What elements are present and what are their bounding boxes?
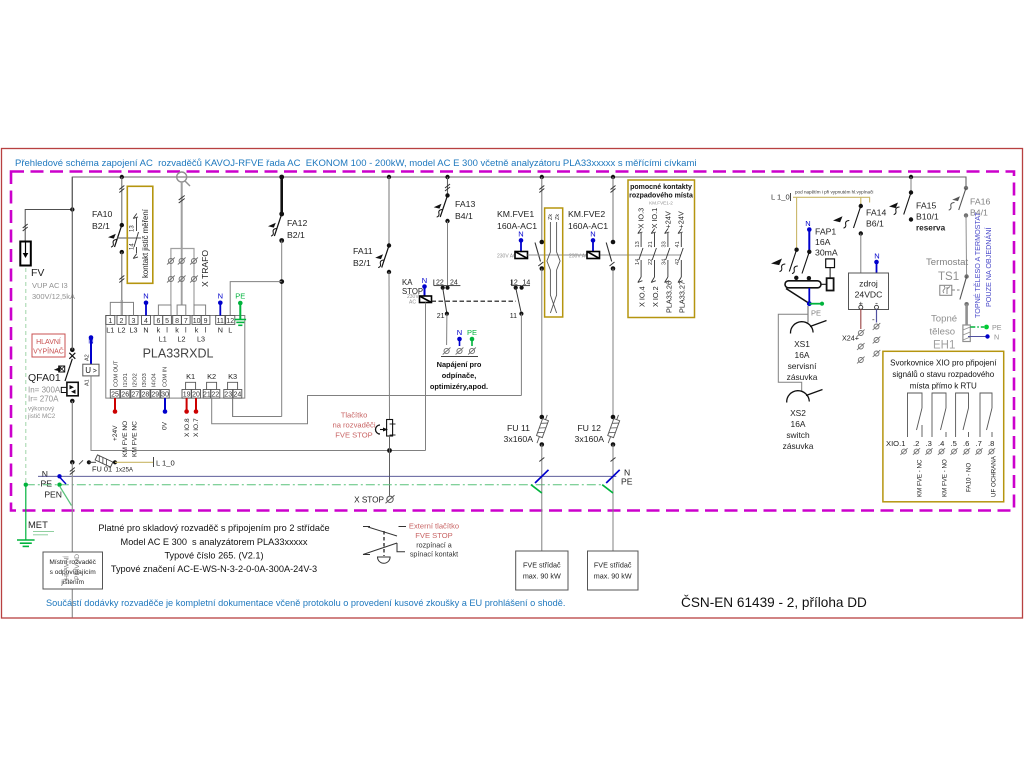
svg-text:11: 11 [510, 313, 517, 320]
wire FA11 down to stop button [388, 272, 391, 420]
undervoltage release U> [83, 335, 99, 386]
svg-text:VYPÍNAČ: VYPÍNAČ [33, 347, 64, 356]
svg-text:TS1: TS1 [938, 271, 959, 283]
terminal X STOP [354, 495, 394, 504]
heating element EH1 [930, 304, 1002, 351]
svg-text:k: k [175, 326, 179, 335]
svg-text:PLA33.26: PLA33.26 [664, 281, 673, 313]
svg-text:zásuvka: zásuvka [787, 372, 818, 382]
svg-text:14: 14 [130, 243, 136, 250]
svg-text:10: 10 [193, 318, 201, 325]
earth PE at terminal 12 [235, 301, 247, 326]
svg-text:.5: .5 [951, 439, 957, 448]
terminal numbers bottom row U1 [111, 392, 241, 399]
svg-text:Zk: Zk [555, 214, 561, 220]
earth MET [17, 485, 54, 547]
contactor KM.FVE1 [497, 177, 544, 271]
svg-text:PE: PE [992, 323, 1002, 332]
svg-text:FA10: FA10 [92, 209, 112, 219]
svg-text:B2/1: B2/1 [92, 221, 110, 231]
wire FV tap [23, 207, 75, 241]
svg-text:výkonový: výkonový [28, 406, 55, 413]
disconnect points X TRAFO [167, 258, 198, 283]
svg-text:XS1: XS1 [794, 339, 810, 349]
svg-text:max. 90 kW: max. 90 kW [594, 572, 632, 581]
svg-text:Typové značení AC-E-WS-N-3-2-0: Typové značení AC-E-WS-N-3-2-0-0A-300A-2… [111, 564, 317, 574]
svg-text:FA12: FA12 [287, 218, 307, 228]
wire to socket XS2 [778, 314, 808, 391]
svg-text:FA10 - NO: FA10 - NO [966, 463, 973, 492]
svg-text:PE: PE [41, 479, 53, 489]
svg-text:+24V: +24V [112, 425, 119, 441]
terminal names top row U1 [106, 326, 232, 344]
svg-text:X24+: X24+ [842, 334, 859, 343]
svg-text:1: 1 [108, 318, 112, 325]
label external stop button [409, 522, 459, 559]
svg-text:X TRAFO: X TRAFO [200, 250, 210, 287]
svg-text:na rozvaděči: na rozvaděči [332, 421, 375, 430]
fuse FU 01 [70, 455, 134, 474]
wire button to X STOP [389, 436, 391, 496]
svg-text:22: 22 [436, 280, 444, 287]
svg-text:+24V: +24V [663, 211, 672, 228]
wire contact 11 down [520, 314, 522, 396]
svg-text:21: 21 [437, 313, 445, 320]
svg-text:33: 33 [662, 241, 668, 247]
svg-text:N: N [422, 276, 427, 285]
svg-text:.4: .4 [938, 439, 944, 448]
svg-text:24: 24 [234, 392, 242, 399]
svg-text:L2: L2 [178, 335, 186, 344]
wire FU11 to inverter 1 [531, 445, 549, 552]
relay K1 bracket [186, 372, 196, 390]
svg-text:odpínače,: odpínače, [442, 371, 477, 380]
svg-text:COM OUT: COM OUT [113, 360, 119, 387]
svg-text:KA: KA [402, 278, 413, 287]
svg-text:N: N [218, 292, 223, 301]
measuring point symbol on bus [177, 172, 190, 186]
svg-text:28: 28 [142, 392, 150, 399]
svg-text:13: 13 [635, 241, 641, 247]
socket XS1 [787, 306, 827, 382]
svg-text:rozpadového místa: rozpadového místa [629, 193, 693, 200]
terminal points XIO [900, 448, 995, 455]
node FA12 to PLA L [279, 279, 284, 284]
wire 0V stub terminal 30 [162, 398, 169, 430]
svg-text:L3: L3 [197, 335, 205, 344]
inverter box 1 FVE stridac [516, 551, 568, 590]
socket XS2 [783, 390, 823, 452]
external stop button symbol [363, 527, 406, 564]
node bus-FA11 [387, 175, 391, 179]
circuit breaker FA15 [889, 177, 946, 233]
svg-text:KM FVE - NO: KM FVE - NO [942, 459, 949, 497]
svg-text:N: N [457, 328, 462, 337]
svg-text:XS2: XS2 [790, 408, 806, 418]
svg-text:PLA33.27: PLA33.27 [678, 281, 687, 313]
svg-text:30: 30 [161, 392, 169, 399]
svg-text:KM FVE NO: KM FVE NO [122, 421, 129, 457]
wire FU12 to inverter 2 [602, 445, 633, 552]
svg-text:N: N [590, 230, 595, 239]
aux contact column X IO.1 [648, 208, 660, 307]
main contacts box KM (gold) [545, 208, 563, 317]
wire X24- output [872, 309, 880, 357]
relay contact KA STOP 11/12/14 [510, 280, 531, 321]
aux contact FA10 - NO [956, 393, 973, 492]
aux contact column +24V / PLA33.26 [662, 211, 674, 313]
svg-text:Tlačítko: Tlačítko [341, 411, 368, 420]
mechanical link KM.FVE1 to aux contacts [528, 254, 682, 256]
svg-text:I1\O1: I1\O1 [123, 373, 129, 387]
spec text block [98, 523, 329, 574]
svg-text:KM.FVE2: KM.FVE2 [568, 209, 605, 219]
svg-text:L 1_0: L 1_0 [156, 459, 175, 468]
outgoing feed: napajeni pro odpinace [430, 328, 488, 391]
fuse FU 11 [504, 414, 551, 447]
svg-text:L 1_0: L 1_0 [771, 193, 790, 202]
svg-text:Přehledové schéma zapojení AC: Přehledové schéma zapojení AC rozvaděčů … [15, 158, 696, 169]
svg-text:signálů o stavu rozpadového: signálů o stavu rozpadového [892, 370, 994, 379]
svg-text:X IO.1: X IO.1 [650, 208, 659, 229]
main switch label box [32, 334, 65, 357]
svg-text:11: 11 [217, 318, 224, 325]
svg-text:PE: PE [811, 309, 821, 318]
svg-text:N: N [42, 469, 48, 479]
svg-text:In= 300A: In= 300A [28, 386, 61, 395]
svg-text:2: 2 [120, 318, 124, 325]
svg-text:L: L [228, 326, 232, 335]
svg-text:.2: .2 [913, 439, 919, 448]
svg-text:25: 25 [111, 392, 119, 399]
svg-text:.7: .7 [976, 439, 982, 448]
svg-text:1x25A: 1x25A [116, 467, 134, 474]
wire KM.FVE2 to FU12 [612, 269, 614, 418]
relay coil KA STOP [402, 276, 432, 306]
svg-text:FV: FV [31, 267, 44, 279]
svg-text:PLA33RXDL: PLA33RXDL [143, 347, 214, 361]
svg-text:>: > [93, 368, 97, 375]
svg-text:FU 12: FU 12 [577, 423, 601, 433]
wire bracket terminals 1-3 [110, 302, 133, 315]
svg-text:jistič MC2: jistič MC2 [27, 413, 56, 420]
conductor PE distribution [24, 479, 601, 489]
circuit breaker FA14 [833, 204, 886, 236]
svg-text:K2: K2 [207, 372, 216, 381]
thermostat TS1 [926, 257, 969, 306]
svg-text:Napájení pro: Napájení pro [437, 360, 482, 369]
svg-text:N: N [218, 326, 223, 335]
svg-text:B2/1: B2/1 [353, 258, 371, 268]
wire X24+ output [842, 309, 865, 363]
svg-text:12: 12 [226, 318, 234, 325]
svg-text:.3: .3 [926, 439, 932, 448]
svg-text:27: 27 [131, 392, 139, 399]
svg-text:FVE střídač: FVE střídač [523, 561, 561, 570]
wire main supply down [70, 462, 75, 617]
svg-text:X IO.2: X IO.2 [651, 286, 660, 307]
svg-text:X IO.4: X IO.4 [638, 286, 647, 307]
wire +24V stub terminal 25 [112, 398, 119, 441]
label HLAVNI PRIVOD vertical [62, 554, 82, 580]
wire bracket terminals 10-9 [194, 305, 206, 316]
svg-text:X IO.8: X IO.8 [184, 418, 191, 437]
node bus-FA12 [279, 175, 284, 180]
node PE of sockets [807, 301, 824, 317]
svg-text:I2\O2: I2\O2 [133, 373, 139, 387]
svg-text:X IO.7: X IO.7 [193, 418, 200, 437]
svg-text:rozpínací a: rozpínací a [416, 541, 452, 550]
svg-text:22: 22 [648, 259, 654, 265]
circuit breaker FA10 [92, 177, 141, 300]
svg-text:TOPNÉ TĚLESO A TERMOSTAT: TOPNÉ TĚLESO A TERMOSTAT [973, 211, 982, 318]
svg-text:pomocné kontakty: pomocné kontakty [630, 184, 692, 191]
svg-text:k: k [195, 326, 199, 335]
wire bracket terminals 6-5 [158, 305, 171, 316]
svg-text:Svorkovnice XIO pro připojení: Svorkovnice XIO pro připojení [890, 359, 997, 368]
svg-text:UF OCHRANA: UF OCHRANA [991, 455, 998, 497]
svg-text:FA11: FA11 [353, 246, 373, 256]
wire KM.FVE1 to FU11 [541, 269, 543, 418]
wire X IO.7 stub terminal 20 [193, 398, 200, 437]
svg-text:X IO.3: X IO.3 [637, 208, 646, 229]
svg-text:5: 5 [165, 318, 169, 325]
svg-text:switch: switch [786, 430, 810, 440]
svg-text:Součástí dodávky rozvaděče je: Součástí dodávky rozvaděče je kompletní … [46, 598, 565, 608]
power analyzer U1 PLA33RXDL body [106, 316, 245, 399]
svg-text:26: 26 [121, 392, 129, 399]
svg-text:.6: .6 [963, 439, 969, 448]
svg-text:A1: A1 [84, 379, 90, 386]
wire QFA01 main down [71, 177, 73, 350]
terminal function labels above bottom row U1 [113, 360, 168, 387]
svg-text:Typové číslo 265. (V2.1): Typové číslo 265. (V2.1) [164, 550, 263, 560]
node bus-FA15 [909, 175, 913, 179]
svg-text:N: N [143, 292, 148, 301]
switchboard boundary (dashed) [11, 172, 1014, 511]
svg-text:9: 9 [204, 318, 208, 325]
local switchboard box [43, 552, 103, 589]
svg-text:Termostat: Termostat [926, 257, 968, 268]
svg-text:optimizéry,apod.: optimizéry,apod. [430, 382, 488, 391]
node stop button junction [387, 448, 392, 453]
relay contact KA STOP 21/22/24 [434, 280, 461, 321]
svg-text:FVE STOP: FVE STOP [335, 431, 372, 440]
svg-text:N: N [994, 333, 999, 342]
svg-text:12: 12 [510, 280, 518, 287]
wire contact 21 to load feed [446, 314, 448, 345]
circuit breaker FA16 [949, 186, 991, 218]
inverter box 2 FVE stridac [588, 551, 639, 590]
svg-text:I3\O3: I3\O3 [142, 373, 148, 387]
terminal block XIO box [883, 351, 1004, 502]
svg-text:Ir= 270A: Ir= 270A [28, 395, 59, 404]
wire PEN split [60, 477, 72, 506]
wire crossing marks on X TRAFO [179, 196, 185, 204]
mechanical link KA STOP [432, 300, 517, 302]
svg-text:FAP1: FAP1 [815, 227, 836, 237]
terminal strip top row U1 [106, 316, 235, 325]
svg-text:6: 6 [156, 318, 160, 325]
svg-text:A2: A2 [84, 354, 90, 361]
svg-text:N: N [805, 219, 810, 228]
svg-text:U: U [85, 366, 91, 375]
svg-text:24: 24 [450, 280, 458, 287]
svg-text:FU 01: FU 01 [92, 465, 112, 474]
aux contact KM FVE - NO [932, 393, 949, 497]
svg-text:21: 21 [648, 241, 654, 247]
node N above terminal 11 [218, 292, 223, 316]
svg-text:ČSN-EN 61439 - 2, příloha DD: ČSN-EN 61439 - 2, příloha DD [681, 595, 867, 610]
circuit breaker QFA01 [27, 348, 78, 421]
svg-text:kontakt jistič měření: kontakt jistič měření [141, 208, 150, 278]
wire FA14 to power supply [860, 234, 862, 274]
wire FA12 down [281, 241, 283, 417]
svg-text:POUZE NA OBJEDNÁNÍ: POUZE NA OBJEDNÁNÍ [984, 228, 993, 307]
svg-text:Platné pro skladový rozvaděč s: Platné pro skladový rozvaděč s připojení… [98, 523, 329, 533]
svg-text:FA14: FA14 [866, 208, 886, 218]
svg-text:3: 3 [132, 318, 136, 325]
node bus-KM.FVE1 [540, 175, 544, 179]
net label L1_0 [154, 457, 175, 468]
wire KA coil down [425, 303, 427, 451]
svg-text:20: 20 [192, 392, 200, 399]
svg-text:HLAVNÍ: HLAVNÍ [62, 556, 71, 580]
svg-text:0V: 0V [162, 421, 169, 430]
svg-text:34: 34 [662, 259, 668, 265]
drawing frame border [2, 149, 1023, 619]
svg-text:16A: 16A [791, 419, 806, 429]
fuse FU 12 [575, 414, 622, 447]
svg-text:QFA01: QFA01 [28, 372, 61, 384]
svg-text:I4\O4: I4\O4 [152, 373, 158, 387]
svg-text:PE: PE [467, 328, 477, 337]
terminal numbers top row U1 [108, 318, 234, 325]
main AC bus L1_0 [72, 177, 966, 210]
svg-text:Model AC E 300 s analyzátorem: Model AC E 300 s analyzátorem PLA33xxxxx [121, 537, 308, 547]
svg-text:8: 8 [175, 318, 179, 325]
svg-text:COM IN: COM IN [163, 367, 169, 387]
svg-text:42: 42 [675, 259, 681, 265]
svg-text:FVE STOP: FVE STOP [415, 531, 452, 540]
svg-text:+24V: +24V [677, 211, 686, 228]
svg-text:FA13: FA13 [455, 199, 475, 209]
svg-text:230V AC: 230V AC [569, 254, 589, 260]
wire L1_0 from FU 01 [115, 461, 153, 463]
svg-text:N: N [874, 252, 879, 261]
svg-text:pod napětím i při vypnutém hl.: pod napětím i při vypnutém hl.vypínači [795, 190, 873, 195]
svg-text:KM FVE NC: KM FVE NC [132, 421, 139, 457]
power supply unit zdroj 24VDC [849, 252, 889, 310]
svg-text:B6/1: B6/1 [866, 219, 884, 229]
circuit breaker FA12 [268, 177, 307, 243]
svg-text:160A-AC1: 160A-AC1 [497, 221, 537, 231]
svg-text:N: N [143, 326, 148, 335]
push button FVE STOP on panel [332, 411, 395, 440]
terminal strip bottom row U1 [110, 390, 242, 399]
svg-text:reserva: reserva [916, 224, 946, 233]
svg-text:.8: .8 [988, 439, 994, 448]
svg-text:servisní: servisní [788, 361, 818, 371]
circuit breaker FA13 [434, 177, 476, 223]
svg-text:7: 7 [184, 318, 188, 325]
wire X TRAFO feeder [171, 182, 194, 305]
svg-text:-: - [872, 315, 875, 324]
svg-text:14: 14 [523, 280, 531, 287]
svg-text:L1: L1 [159, 335, 167, 344]
wire FA13 down [447, 221, 449, 288]
svg-text:EH1: EH1 [933, 340, 955, 352]
aux contact UF OCHRANA [980, 393, 998, 497]
svg-text:KM.FVE1: KM.FVE1 [497, 209, 534, 219]
aux contact column X IO.3 [635, 208, 647, 307]
svg-text:13: 13 [130, 225, 136, 232]
svg-text:FA15: FA15 [916, 201, 936, 211]
svg-text:30mA: 30mA [815, 248, 838, 258]
svg-text:21: 21 [203, 392, 211, 399]
wire X IO.8 stub terminal 19 [184, 398, 191, 437]
svg-text:FA16: FA16 [970, 197, 990, 207]
svg-text:VUP AC I3: VUP AC I3 [32, 281, 68, 290]
svg-text:PEN: PEN [44, 490, 62, 500]
svg-text:24VDC: 24VDC [855, 290, 883, 300]
aux contact column +24V / PLA33.27 [675, 211, 687, 313]
svg-text:X STOP: X STOP [354, 496, 384, 505]
svg-text:MET: MET [28, 519, 48, 530]
aux contact KM FVE - NC [908, 393, 924, 497]
auxiliary contact box: kontakt jistic mereni [127, 186, 153, 283]
svg-text:spínací kontakt: spínací kontakt [410, 550, 458, 559]
wire FA12 to terminal 21/22 [233, 398, 282, 416]
svg-text:KM FVE - NC: KM FVE - NC [917, 459, 924, 497]
svg-text:22: 22 [211, 392, 219, 399]
svg-text:14: 14 [635, 259, 641, 265]
circuit breaker FA11 [353, 177, 391, 274]
surge arrester FV [20, 242, 75, 302]
wire FA16 to thermostat [965, 215, 968, 276]
svg-text:23: 23 [224, 392, 232, 399]
svg-text:zásuvka: zásuvka [783, 441, 814, 451]
svg-text:41: 41 [675, 241, 681, 247]
svg-text:Místní rozvaděč: Místní rozvaděč [49, 559, 96, 566]
svg-text:k: k [157, 326, 161, 335]
svg-text:N: N [518, 230, 523, 239]
svg-text:16A: 16A [815, 237, 831, 247]
svg-text:HLAVNÍ: HLAVNÍ [36, 337, 61, 346]
svg-text:B4/1: B4/1 [455, 211, 473, 221]
svg-text:3x160A: 3x160A [504, 434, 534, 444]
wire L1_0 distribution (yellow) [771, 190, 873, 250]
svg-text:230V AC: 230V AC [497, 254, 517, 260]
svg-text:4: 4 [144, 318, 148, 325]
node bus-KM.FVE2 [611, 175, 615, 179]
relay K2 bracket [207, 372, 217, 390]
svg-text:B10/1: B10/1 [916, 212, 939, 222]
svg-text:19: 19 [183, 392, 191, 399]
wire K3 contact stub [232, 398, 234, 416]
svg-text:těleso: těleso [930, 327, 956, 338]
contactor KM.FVE2 [568, 177, 616, 271]
svg-text:B2/1: B2/1 [287, 230, 305, 240]
conductor N distribution [38, 469, 616, 479]
auxiliary contacts box (gold): pomocne kontakty [628, 180, 695, 318]
svg-text:místa přímo k RTU: místa přímo k RTU [910, 382, 977, 391]
svg-text:PŘÍVOD: PŘÍVOD [72, 554, 81, 580]
svg-text:K3: K3 [228, 372, 237, 381]
svg-text:Externí tlačítko: Externí tlačítko [409, 522, 459, 531]
svg-text:PE: PE [235, 292, 245, 301]
svg-text:FVE střídač: FVE střídač [594, 561, 632, 570]
